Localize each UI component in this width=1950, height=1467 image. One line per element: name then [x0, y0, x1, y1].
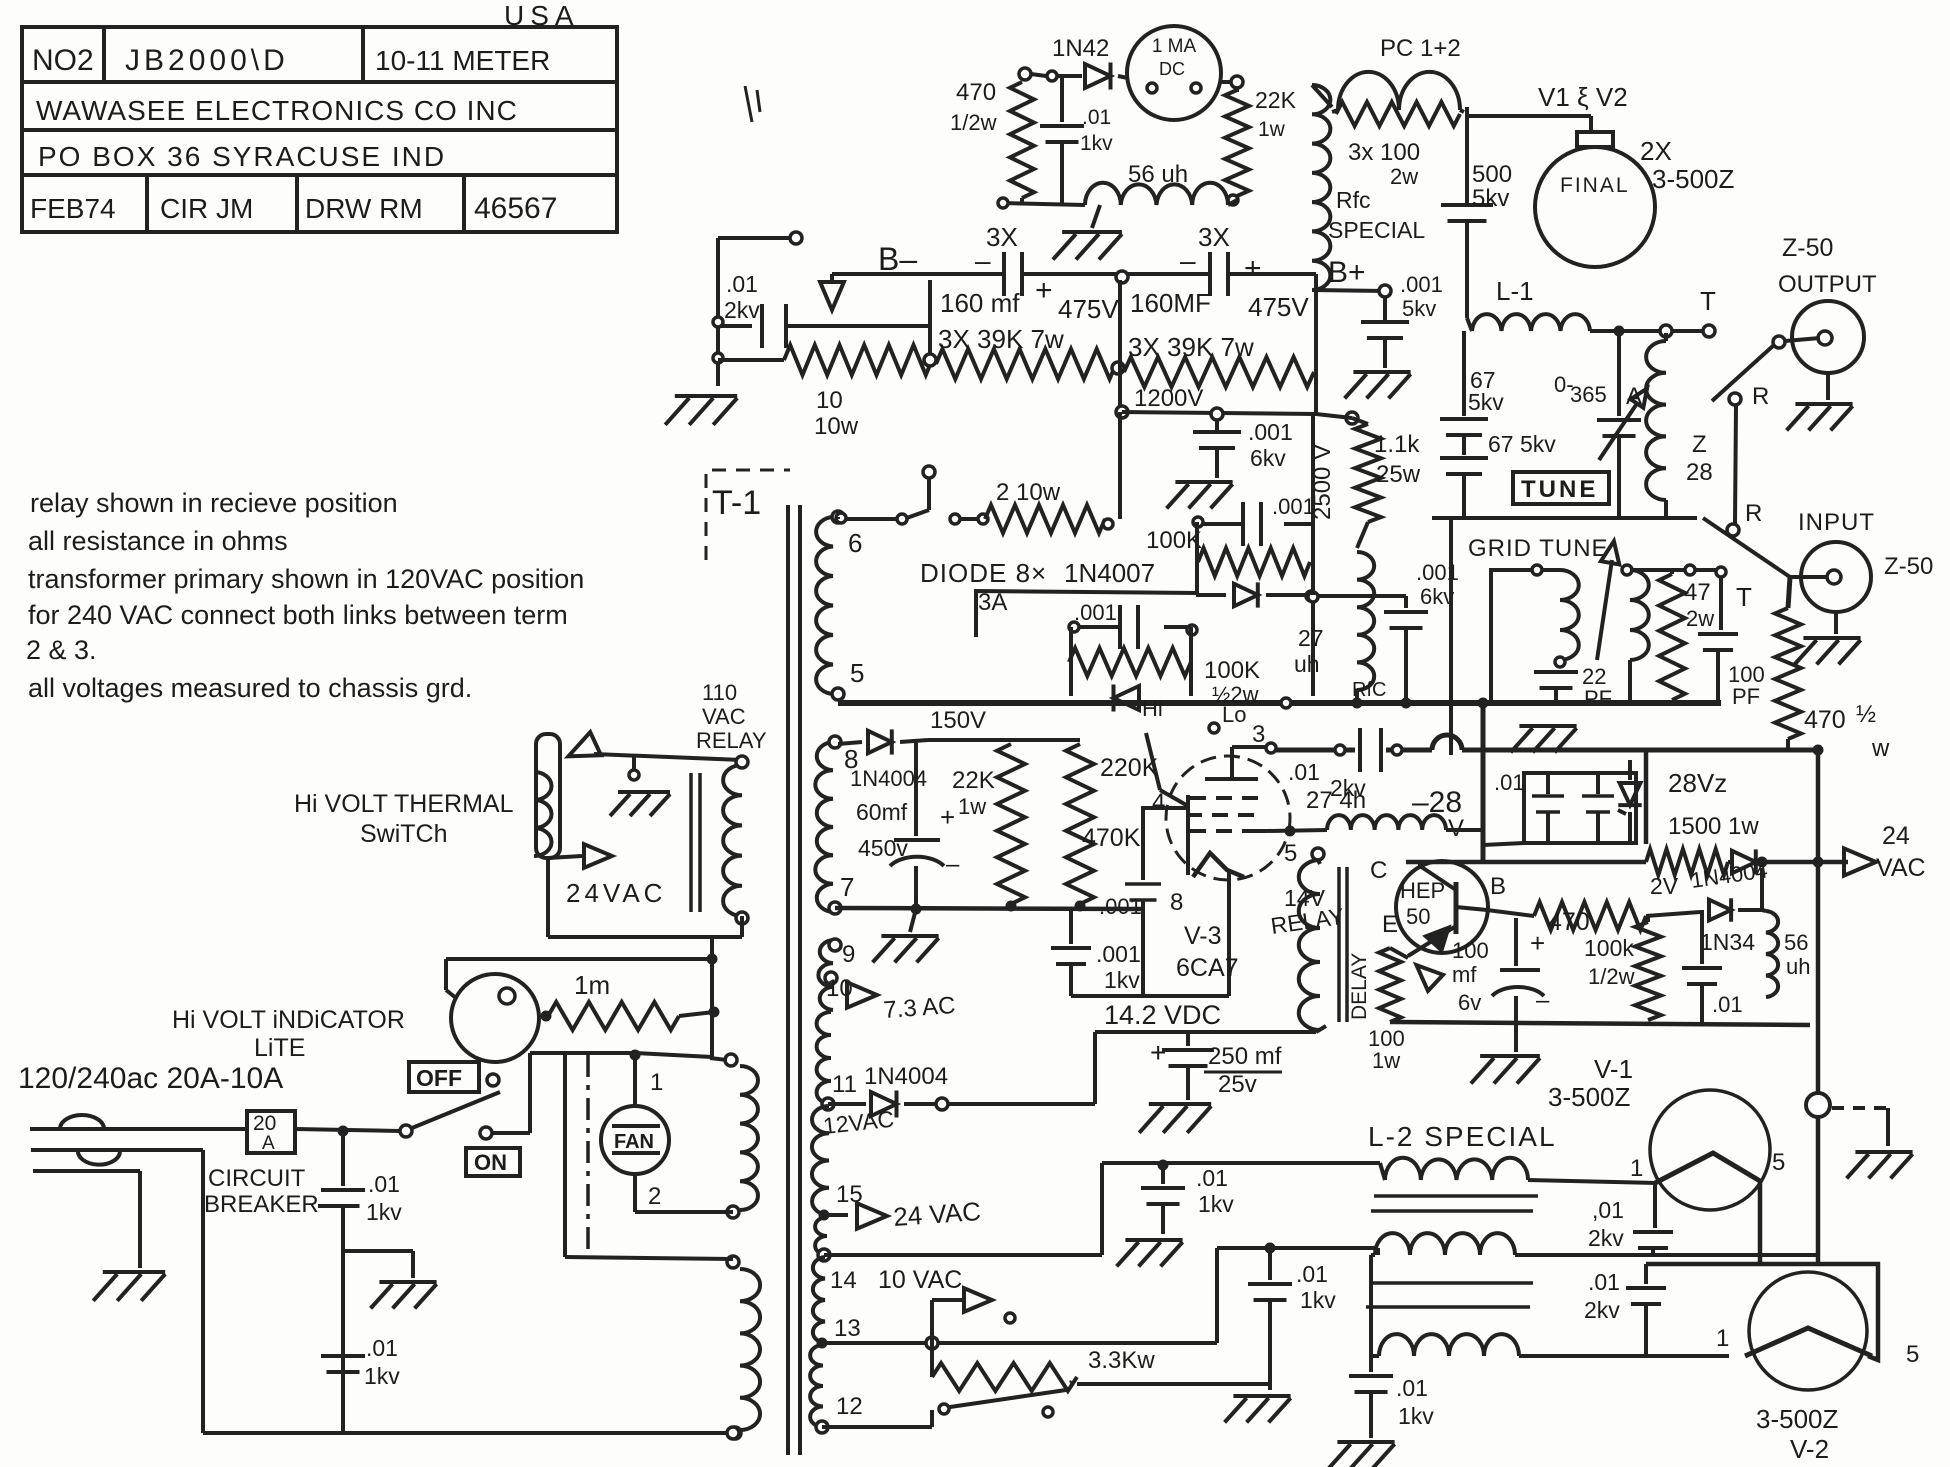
svg-text:DC: DC	[1159, 59, 1185, 79]
inductor grid tune	[1491, 565, 1579, 700]
inductor PC 1+2	[1332, 72, 1464, 112]
svg-text:1kv: 1kv	[1104, 967, 1140, 993]
resistor 47 2W	[1659, 570, 1714, 703]
svg-text:56: 56	[1784, 930, 1808, 955]
label 3A	[978, 589, 1007, 616]
note line 2	[28, 526, 288, 556]
svg-text:–: –	[1536, 987, 1550, 1014]
emitter arrow relay	[1390, 926, 1456, 991]
ground below L2 cap	[1329, 1442, 1395, 1467]
svg-text:FAN: FAN	[614, 1131, 654, 1153]
svg-text:160 mf: 160 mf	[940, 288, 1020, 318]
label DIODE 8X 1N4007	[920, 558, 1155, 588]
svg-text:5: 5	[1906, 1341, 1919, 1368]
inductor L-2 winding 1	[1385, 1158, 1655, 1183]
svg-text:9: 9	[842, 941, 855, 968]
svg-text:2kv: 2kv	[1588, 1225, 1624, 1251]
svg-text:Z-50: Z-50	[1782, 234, 1833, 262]
svg-text:475V: 475V	[1058, 294, 1119, 324]
svg-text:10-11 METER: 10-11 METER	[375, 45, 550, 76]
tube V-3 pin 4	[1141, 789, 1188, 816]
resistor 3X 39K 7W #2	[1124, 332, 1314, 387]
svg-text:1w: 1w	[1372, 1048, 1400, 1073]
tube FINAL 2X 3-500Z	[1535, 147, 1655, 267]
label -28 V	[1412, 786, 1464, 842]
tube V-1 filament	[1630, 1149, 1785, 1183]
svg-text:1kv: 1kv	[1300, 1287, 1336, 1313]
svg-text:Z-50: Z-50	[1884, 553, 1933, 580]
switch HI/LO arm	[1146, 733, 1188, 806]
tube V-3 plate	[1205, 747, 1258, 779]
wire input link top	[1630, 565, 1726, 577]
switch ON contact	[480, 1050, 712, 1139]
wire plate feed	[1467, 107, 1591, 205]
svg-text:PF: PF	[1584, 686, 1612, 711]
svg-text:Hi VOLT THERMAL: Hi VOLT THERMAL	[294, 790, 514, 818]
diode 1N4004 24VAC	[1689, 849, 1769, 893]
svg-text:5kv: 5kv	[1402, 296, 1436, 321]
svg-text:5: 5	[850, 658, 864, 688]
svg-text:475V: 475V	[1248, 292, 1309, 322]
terminal INPUT Z-50	[1790, 542, 1933, 612]
arrow 24 VAC right	[1844, 822, 1926, 882]
wire detector riser	[1760, 868, 1764, 910]
svg-text:PO BOX 36 SYRACUSE IND: PO BOX 36 SYRACUSE IND	[38, 141, 446, 172]
label V-1	[1594, 1054, 1633, 1084]
svg-text:1kv: 1kv	[1080, 132, 1113, 155]
tube V-1 3-500Z	[1650, 1090, 1770, 1210]
svg-text:DIODE 8×: DIODE 8×	[920, 558, 1047, 588]
svg-text:14.2 VDC: 14.2 VDC	[1104, 1000, 1221, 1030]
label 14V RELAY	[1269, 885, 1346, 939]
svg-text:22K: 22K	[952, 767, 995, 794]
label 27 uh choke	[1294, 625, 1324, 677]
svg-text:6: 6	[848, 528, 862, 558]
svg-text:V1 ξ V2: V1 ξ V2	[1538, 82, 1628, 112]
svg-text:T: T	[1736, 582, 1752, 612]
svg-text:1N34: 1N34	[1700, 929, 1755, 955]
svg-text:1: 1	[1630, 1155, 1643, 1182]
variable capacitor 0-365 tune	[1554, 331, 1653, 472]
svg-text:TUNE: TUNE	[1521, 476, 1598, 503]
title row WAWASEE ELECTRONICS CO INC	[36, 95, 518, 126]
wire 14.2VDC	[948, 1026, 1326, 1104]
svg-text:BREAKER: BREAKER	[204, 1191, 319, 1218]
svg-text:2 & 3.: 2 & 3.	[26, 635, 97, 665]
wire B- right	[1228, 272, 1316, 276]
capacitor 160mf 475V #1	[940, 245, 1119, 324]
node top of 470 resistor	[1019, 68, 1057, 81]
svg-text:VAC: VAC	[702, 704, 746, 729]
svg-text:1200V: 1200V	[1134, 385, 1203, 412]
svg-text:JB2000\D: JB2000\D	[125, 44, 289, 77]
svg-text:160MF: 160MF	[1130, 288, 1211, 318]
title block border	[22, 27, 617, 232]
wire relay bottom	[712, 916, 742, 937]
label 1N42	[1052, 35, 1109, 62]
wire grid riser	[1449, 518, 1453, 755]
node bleeder right	[1314, 282, 1318, 412]
wire V3 grid return	[1071, 994, 1229, 998]
svg-text:uh: uh	[1294, 651, 1320, 677]
svg-text:100: 100	[1452, 938, 1489, 963]
svg-text:V-3: V-3	[1184, 922, 1222, 950]
T-1 primary winding lower	[727, 1256, 760, 1439]
svg-text:150V: 150V	[930, 707, 986, 734]
wire R riser	[1735, 405, 1736, 524]
inductor 27 4h	[1267, 787, 1483, 836]
label 3-500Z V1	[1548, 1082, 1630, 1112]
T-1 secondary winding 15	[812, 1106, 863, 1220]
svg-text:1kv: 1kv	[1398, 1403, 1434, 1429]
svg-text:100K: 100K	[1146, 527, 1202, 554]
capacitor 60mf 450V	[856, 741, 960, 909]
svg-text:470: 470	[1548, 908, 1590, 936]
label DELAY vertical	[1348, 953, 1371, 1020]
label INPUT	[1798, 509, 1875, 536]
svg-text:transformer primary shown in 1: transformer primary shown in 120VAC posi…	[28, 564, 584, 594]
wire 1.1k to choke	[1357, 522, 1368, 548]
title cell 46567	[474, 192, 557, 225]
svg-text:1: 1	[650, 1069, 663, 1096]
transistor HEP 50	[1396, 861, 1488, 953]
svg-text:5: 5	[1772, 1149, 1785, 1176]
svg-text:50: 50	[1406, 904, 1430, 929]
svg-text:Hi VOLT iNDiCATOR: Hi VOLT iNDiCATOR	[172, 1006, 405, 1034]
box 28VZ filter	[1483, 773, 1636, 845]
wire base right	[1646, 912, 1700, 916]
svg-text:FINAL: FINAL	[1560, 174, 1630, 197]
label 470K	[1082, 824, 1141, 852]
svg-text:mf: mf	[1452, 962, 1477, 987]
wire breaker to switch	[295, 1126, 400, 1136]
resistor 100 1w emitter	[1368, 948, 1405, 1073]
arrow 24VAC thermal	[548, 844, 666, 908]
svg-text:110: 110	[702, 680, 737, 705]
arrow aux	[932, 1288, 1015, 1343]
tube V-3 grid dashes	[1186, 798, 1267, 831]
label E	[1382, 911, 1398, 938]
relay core 14V	[1339, 867, 1347, 1022]
svg-text:R: R	[1745, 500, 1762, 527]
svg-text:.01: .01	[366, 1335, 398, 1361]
resistor 220K	[1066, 744, 1159, 904]
svg-text:.01: .01	[1288, 759, 1320, 785]
svg-text:for 240 VAC connect both links: for 240 VAC connect both links between t…	[28, 600, 568, 630]
trimmer arrow grid tune	[1597, 540, 1623, 660]
svg-text:10w: 10w	[814, 413, 859, 440]
svg-text:A: A	[1626, 383, 1642, 410]
wire 2 10W riser	[1103, 412, 1120, 529]
title text USA	[504, 0, 580, 31]
svg-text:27: 27	[1298, 625, 1324, 651]
title cell NO2	[32, 44, 94, 77]
svg-text:+: +	[1150, 1037, 1166, 1068]
ground v2 right	[1847, 1152, 1913, 1178]
label 1m	[574, 970, 610, 1000]
svg-text:L-1: L-1	[1496, 276, 1534, 306]
AC bottom rail	[203, 1427, 739, 1439]
svg-text:13: 13	[834, 1315, 861, 1342]
svg-text:20: 20	[253, 1112, 276, 1135]
wire B- mid	[1022, 271, 1128, 283]
wire fan branch	[565, 1053, 733, 1259]
svg-text:10: 10	[816, 387, 843, 414]
svg-text:B: B	[1490, 873, 1506, 900]
capacitor 250mf 25v	[1150, 1032, 1282, 1100]
wire base	[1487, 910, 1534, 916]
svg-text:uh: uh	[1786, 954, 1810, 979]
title row PO BOX 36 SYRACUSE IND	[38, 141, 446, 172]
label V-3 6CA7	[1176, 922, 1239, 982]
svg-text:3X: 3X	[1198, 222, 1230, 252]
svg-text:100K: 100K	[1204, 657, 1260, 684]
capacitor .01 detector	[1682, 910, 1743, 1025]
resistor 1m	[541, 1002, 714, 1030]
tube V-3 6CA7	[1166, 756, 1290, 880]
capacitor 100 MF 6v	[1452, 918, 1550, 1015]
svg-text:T-1: T-1	[712, 484, 761, 522]
svg-text:2w: 2w	[1390, 164, 1418, 189]
svg-text:24: 24	[1882, 822, 1910, 850]
svg-text:3: 3	[1252, 721, 1265, 748]
resistor 22K 1w screen	[952, 744, 1025, 904]
wire thermal to primary	[548, 856, 719, 1058]
svg-text:A: A	[262, 1133, 275, 1154]
svg-text:28Vz: 28Vz	[1668, 768, 1727, 798]
svg-text:GRID TUNE: GRID TUNE	[1468, 535, 1609, 562]
diode HI in rail	[1114, 685, 1163, 722]
T-1 secondary winding 13	[813, 1257, 861, 1348]
svg-text:1.1k: 1.1k	[1374, 431, 1420, 458]
tube V-3 pin 8	[1170, 889, 1183, 916]
svg-text:3-500Z: 3-500Z	[1756, 1404, 1838, 1434]
svg-text:11: 11	[832, 1071, 857, 1098]
svg-text:relay shown in recieve positio: relay shown in recieve position	[30, 488, 398, 518]
inductor input link T	[1622, 565, 1649, 703]
svg-text:.01: .01	[726, 271, 758, 297]
svg-text:2V: 2V	[1650, 873, 1679, 899]
svg-text:2kv: 2kv	[1584, 1297, 1620, 1323]
svg-text:47: 47	[1684, 579, 1711, 606]
svg-text:3x 100: 3x 100	[1348, 139, 1420, 166]
svg-text:HEP: HEP	[1400, 878, 1445, 903]
tube V-2 filament	[1716, 1325, 1919, 1368]
label PC 1+2	[1380, 35, 1461, 62]
svg-text:3-500Z: 3-500Z	[1548, 1082, 1630, 1112]
svg-text:1 MA: 1 MA	[1152, 36, 1197, 57]
svg-text:1: 1	[1716, 1325, 1729, 1352]
svg-text:470: 470	[1804, 706, 1846, 734]
svg-text:120/240ac 20A-10A: 120/240ac 20A-10A	[18, 1062, 283, 1095]
svg-text:,01: ,01	[1592, 1197, 1624, 1223]
tube V-3 pin 3	[1232, 721, 1267, 748]
svg-text:8: 8	[1170, 889, 1183, 916]
svg-text:3X: 3X	[986, 222, 1018, 252]
label 120/240ac 20A-10A	[18, 1062, 283, 1095]
wire bleeder left	[718, 358, 784, 362]
svg-text:3X 39K 7w: 3X 39K 7w	[938, 324, 1064, 354]
wire B- rail	[832, 272, 1004, 276]
inductor 27uh plate choke	[1352, 552, 1386, 703]
capacitor .001 grid V3	[1099, 808, 1161, 996]
wire 24VAC rail	[1406, 860, 1848, 865]
chassis dash line	[586, 1055, 590, 1257]
arrow B- down	[820, 274, 844, 310]
label 3-500Z	[1652, 164, 1734, 194]
svg-text:.001: .001	[1272, 494, 1315, 519]
svg-text:B–: B–	[878, 241, 917, 277]
wire meter bottom	[998, 198, 1085, 208]
tube V-3 cathode	[1188, 795, 1244, 996]
title cell JB2000\D	[125, 44, 289, 77]
relay 110VAC label	[696, 680, 767, 753]
svg-text:27 4h: 27 4h	[1306, 787, 1366, 814]
capacitor .001 6KV grid	[1306, 560, 1459, 703]
label 150V	[928, 707, 1008, 740]
capacitor .01 2KV input filter	[718, 271, 930, 348]
svg-text:3-500Z: 3-500Z	[1652, 164, 1734, 194]
ground below heater cap b	[1225, 1396, 1291, 1422]
svg-text:FEB74: FEB74	[30, 193, 116, 224]
capacitor .01 1KV meter	[1040, 78, 1113, 203]
label L-2 SPECIAL	[1368, 1121, 1557, 1152]
note line 4	[28, 600, 568, 630]
switch OFF/ON	[400, 1092, 500, 1137]
label ON boxed	[466, 1148, 520, 1176]
capacitor .01 2KV bias	[1288, 728, 1402, 801]
zener diode 28V Z	[1618, 760, 1727, 843]
svg-text:6v: 6v	[1458, 990, 1481, 1015]
circuit breaker 20A	[247, 1111, 295, 1154]
svg-text:.01: .01	[1588, 1269, 1620, 1295]
ground left bleeder	[665, 396, 737, 425]
label 11 pin	[0, 0, 1, 1]
svg-text:NO2: NO2	[32, 44, 94, 77]
label 2V	[1650, 873, 1679, 899]
capacitor .001 snubber mid	[1069, 600, 1197, 649]
capacitor .001 1KV cathode	[1051, 909, 1141, 996]
svg-text:Lo: Lo	[1222, 702, 1246, 727]
label HI VOLT INDICATOR LITE	[172, 1006, 405, 1062]
svg-text:60mf: 60mf	[856, 799, 908, 825]
svg-text:4: 4	[1152, 789, 1165, 816]
AC line 2	[31, 1150, 203, 1433]
svg-text:220K: 220K	[1100, 754, 1159, 782]
resistor 100K 1/2W	[1584, 916, 1661, 1020]
capacitor 160MF 475V #2	[1128, 245, 1309, 322]
resistor 100K 1/2W snubber mid	[1069, 648, 1260, 707]
svg-text:22K: 22K	[1255, 87, 1297, 113]
capacitor 500 5KV	[1441, 161, 1512, 318]
svg-text:DRW RM: DRW RM	[305, 193, 423, 224]
lamp hi volt	[446, 959, 539, 1062]
T-1 secondary winding 14	[815, 1217, 857, 1294]
svg-text:7: 7	[840, 872, 854, 902]
svg-text:12: 12	[836, 1393, 863, 1420]
wire winding6 stub	[836, 517, 840, 519]
svg-text:’: ’	[1068, 1376, 1073, 1401]
svg-text:R: R	[1752, 383, 1769, 410]
wire pin13	[822, 1248, 1378, 1349]
svg-text:67 5kv: 67 5kv	[1488, 431, 1556, 457]
ground below grid rail	[1511, 726, 1577, 752]
svg-text:all voltages measured to chass: all voltages measured to chassis grd.	[28, 673, 472, 703]
diode 1N4004 12V	[828, 1063, 948, 1118]
svg-text:.01: .01	[1396, 1375, 1428, 1401]
inductor 56uh	[1085, 183, 1228, 205]
capacitor .01 1KV heater b	[1248, 1243, 1336, 1390]
label 1200V	[1134, 385, 1203, 412]
wire -28 riser	[1481, 705, 1486, 862]
tube V-2 3-500Z	[1749, 1272, 1867, 1390]
T-1 secondary winding 9-10	[818, 939, 855, 1010]
svg-text:all resistance in ohms: all resistance in ohms	[28, 526, 288, 556]
svg-text:DELAY: DELAY	[1348, 953, 1371, 1020]
svg-text:24VAC: 24VAC	[566, 878, 666, 908]
ground AC input	[93, 1272, 165, 1301]
svg-text:–: –	[1180, 245, 1196, 276]
svg-text:2 10w: 2 10w	[996, 479, 1061, 506]
svg-text:.01: .01	[368, 1171, 400, 1197]
label 12VAC	[822, 1106, 895, 1139]
label B+	[1328, 256, 1366, 289]
wire 150V node	[1008, 738, 1080, 742]
box V-2 return	[1646, 1264, 1878, 1360]
svg-text:.001: .001	[1074, 600, 1117, 625]
note line 5	[26, 635, 97, 665]
resistor 470 1/2W meter shunt	[950, 79, 1034, 198]
svg-text:250 mf: 250 mf	[1208, 1043, 1282, 1070]
node bleeder 1	[924, 280, 936, 366]
svg-text:28: 28	[1686, 459, 1713, 486]
capacitor .001 6KV	[1193, 419, 1293, 478]
svg-text:CIR JM: CIR JM	[160, 193, 253, 224]
svg-text:.01: .01	[1494, 770, 1525, 795]
label B-	[878, 241, 917, 277]
capacitor .01 2KV v2	[1584, 1264, 1666, 1356]
wire L-1 to T	[1590, 325, 1715, 337]
title cell DRW RM	[305, 193, 423, 224]
resistor 3.3KW	[932, 1343, 1270, 1391]
svg-text:.01: .01	[1296, 1261, 1328, 1287]
inductor Z 28	[1646, 333, 1713, 518]
capacitor .001 5KV at B+	[1361, 272, 1443, 368]
node bleeder 2	[1112, 280, 1124, 412]
capacitor .01 2KV v1	[1588, 1183, 1673, 1255]
svg-text:3.3Kw: 3.3Kw	[1088, 1347, 1155, 1374]
svg-text:.001: .001	[1099, 894, 1142, 919]
svg-text:–: –	[975, 245, 991, 276]
label GRID TUNE	[1468, 535, 1609, 562]
relay coil 110VAC	[723, 756, 748, 924]
title cell CIR JM	[160, 193, 253, 224]
svg-text:B+: B+	[1328, 256, 1366, 289]
svg-text:½: ½	[1856, 701, 1876, 728]
svg-text:.01: .01	[1196, 1165, 1228, 1191]
T-1 secondary winding 8-7	[815, 736, 858, 914]
transformer T-1 core	[788, 505, 800, 1455]
note line 6	[28, 673, 472, 703]
svg-text:V-2: V-2	[1790, 1434, 1829, 1464]
svg-text:USA: USA	[504, 0, 580, 31]
wire pin15 24vac	[0, 0, 1, 1]
svg-text:1500 1w: 1500 1w	[1668, 813, 1759, 840]
relay coil 14V	[1299, 848, 1324, 1030]
capacitor .001 snubber top	[1193, 494, 1315, 546]
capacitor 22 PF	[1534, 657, 1612, 711]
svg-text:10 VAC: 10 VAC	[878, 1266, 962, 1294]
